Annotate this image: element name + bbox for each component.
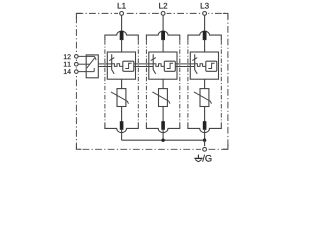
changeover blade 11-12 bbox=[87, 57, 95, 68]
earth terminal bbox=[201, 146, 208, 152]
linkage rail upper, contact box to module 1 bbox=[98, 63, 111, 65]
bottom plug pin 3 bbox=[203, 121, 207, 130]
defect indicator box 2 bbox=[164, 61, 175, 71]
label /G bbox=[202, 155, 211, 162]
thermal disconnector box U2 bbox=[149, 52, 177, 79]
module 3 bottom edge with plug cup bbox=[188, 124, 221, 133]
top plug pin 1 bbox=[120, 31, 124, 40]
wire L1 terminal to top plug pin bbox=[121, 15, 123, 31]
terminal 11 bbox=[64, 61, 80, 67]
varistor MOV2 diagonal bbox=[152, 92, 170, 104]
PE bus wire bbox=[122, 139, 205, 141]
thermal disconnector box U1 bbox=[107, 52, 135, 79]
wire bottom pin to PE bus 3 bbox=[204, 130, 206, 140]
defect indicator box 1 bbox=[123, 61, 134, 71]
indicator step symbol 1 bbox=[125, 63, 131, 68]
module 1 left dash-dot side bbox=[104, 40, 106, 123]
varistor MOV1 diagonal bbox=[111, 92, 129, 104]
terminal 14 bbox=[64, 68, 80, 74]
mechanical linkage square wave 1 bbox=[112, 64, 123, 67]
linkage rail lower, contact box to module 1 bbox=[98, 66, 111, 68]
module 3 left dash-dot side bbox=[187, 40, 189, 123]
wire L2 terminal to top plug pin bbox=[162, 15, 164, 31]
bottom plug pin 1 bbox=[120, 121, 124, 130]
module 3 top edge with plug hump bbox=[188, 31, 221, 40]
module 2 right dash-dot side bbox=[179, 40, 181, 123]
disconnector contact line 1 bbox=[112, 54, 115, 74]
top plug pin 3 bbox=[203, 31, 207, 40]
wire disconnector box to varistor 1 bbox=[121, 79, 123, 88]
module 1 top edge with plug hump bbox=[105, 31, 138, 40]
disconnector contact line 2 bbox=[153, 54, 156, 74]
wire terminal 11 to contact box bbox=[78, 63, 90, 65]
disconnector actuator tick 1 bbox=[109, 58, 114, 61]
wire bottom pin to PE bus 1 bbox=[121, 130, 123, 140]
wire bottom pin to PE bus 2 bbox=[162, 130, 164, 140]
indicator step symbol 3 bbox=[208, 63, 214, 68]
terminal 12 bbox=[64, 53, 80, 59]
disconnector actuator tick 2 bbox=[151, 58, 156, 61]
wire terminal 12 to contact box bbox=[78, 55, 95, 57]
contact 12 seat tick bbox=[95, 57, 96, 60]
disconnector actuator tick 3 bbox=[192, 58, 197, 61]
defect indicator box 3 bbox=[206, 61, 217, 71]
wire PE bus to earth terminal bbox=[204, 140, 206, 147]
module 3 right dash-dot side bbox=[220, 40, 222, 123]
wire varistor to bottom plug pin 3 bbox=[204, 107, 206, 122]
wire varistor to bottom plug pin 2 bbox=[162, 107, 164, 122]
mechanical linkage square wave 2 bbox=[153, 64, 164, 67]
terminal L2 bbox=[159, 3, 167, 17]
linkage rail upper, module 2 to module 3 bbox=[175, 63, 194, 65]
wire varistor to bottom plug pin 1 bbox=[121, 107, 123, 122]
module 2 left dash-dot side bbox=[145, 40, 147, 123]
changeover contact box K1 bbox=[86, 55, 98, 78]
module 1 bottom edge with plug cup bbox=[105, 124, 138, 133]
module 2 top edge with plug hump bbox=[146, 31, 179, 40]
wire terminal 14 to contact box bbox=[78, 71, 94, 73]
terminal L3 bbox=[201, 3, 209, 17]
wire disconnector box to varistor 3 bbox=[204, 79, 206, 88]
module 2 bottom edge with plug cup bbox=[146, 124, 179, 133]
thermal disconnector box U3 bbox=[190, 52, 218, 79]
linkage rail lower, module 2 to module 3 bbox=[175, 66, 194, 68]
wire pin to disconnector box 1 bbox=[121, 39, 123, 52]
junction node module 3 on PE bus bbox=[203, 139, 206, 142]
enclosure dash-dot border bbox=[76, 13, 228, 149]
mechanical linkage square wave 3 bbox=[195, 64, 206, 67]
wire disconnector box to varistor 2 bbox=[162, 79, 164, 88]
terminal L1 bbox=[118, 3, 126, 17]
linkage rail lower, module 1 to module 2 bbox=[134, 66, 153, 68]
varistor MOV3 body bbox=[200, 89, 209, 107]
bottom plug pin 2 bbox=[161, 121, 165, 130]
wire pin to disconnector box 3 bbox=[204, 39, 206, 52]
contact 14 open stub bbox=[93, 68, 95, 72]
varistor MOV3 diagonal bbox=[194, 92, 212, 104]
varistor MOV1 body bbox=[117, 89, 126, 107]
linkage rail upper, module 1 to module 2 bbox=[134, 63, 153, 65]
varistor MOV2 body bbox=[159, 89, 168, 107]
earth symbol glyph bbox=[194, 155, 202, 162]
wire L3 terminal to top plug pin bbox=[204, 15, 206, 31]
disconnector contact line 3 bbox=[195, 54, 198, 74]
wire pin to disconnector box 2 bbox=[162, 39, 164, 52]
indicator step symbol 2 bbox=[167, 63, 173, 68]
module 1 right dash-dot side bbox=[137, 40, 139, 123]
junction node module 2 on PE bus bbox=[161, 139, 164, 142]
top plug pin 2 bbox=[161, 31, 165, 40]
